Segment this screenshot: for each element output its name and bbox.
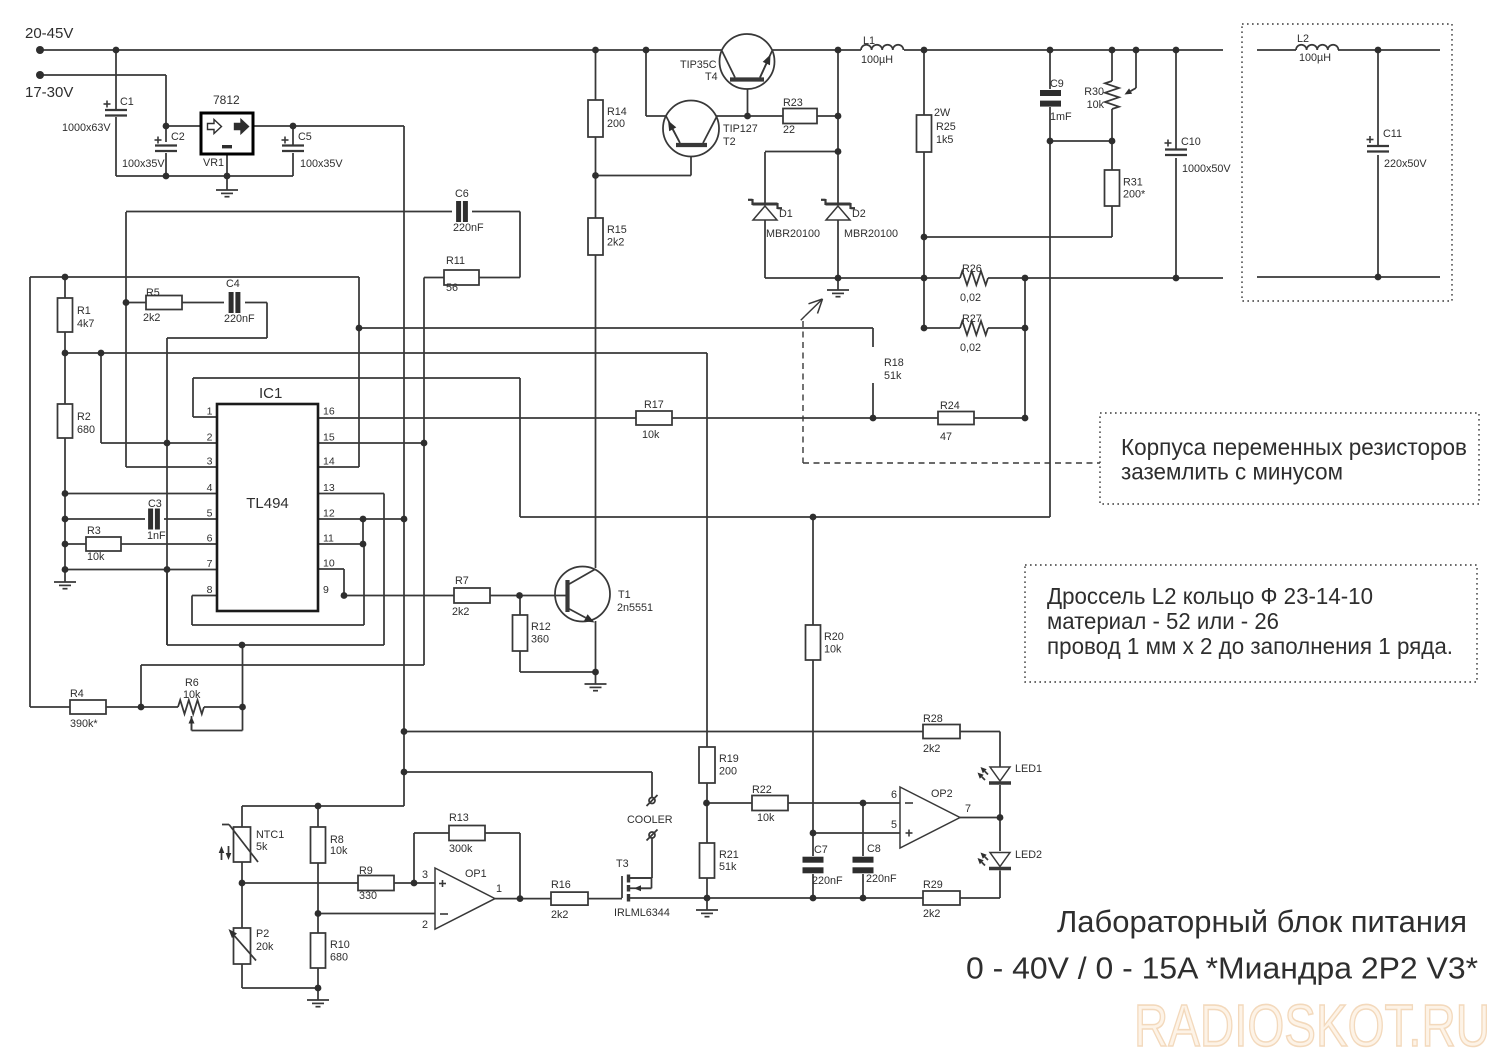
svg-text:200: 200 <box>719 766 737 778</box>
svg-text:1mF: 1mF <box>1050 111 1072 123</box>
svg-text:C6: C6 <box>455 188 469 200</box>
svg-text:14: 14 <box>323 456 335 468</box>
svg-text:LED2: LED2 <box>1015 849 1042 861</box>
svg-text:OP2: OP2 <box>931 788 953 800</box>
svg-text:9: 9 <box>323 584 329 596</box>
svg-text:6: 6 <box>891 789 897 801</box>
svg-text:NTC1: NTC1 <box>256 829 284 841</box>
svg-text:4k7: 4k7 <box>77 318 94 330</box>
svg-text:R30: R30 <box>1084 86 1104 98</box>
svg-text:220x50V: 220x50V <box>1384 158 1427 170</box>
svg-text:MBR20100: MBR20100 <box>766 228 820 240</box>
svg-text:R29: R29 <box>923 879 943 891</box>
svg-text:5: 5 <box>207 508 213 520</box>
svg-text:10k: 10k <box>642 429 660 441</box>
svg-text:0 - 40V / 0 - 15A *Миандра 2Р: 0 - 40V / 0 - 15A *Миандра 2Р2 V3* <box>966 951 1478 986</box>
svg-text:51k: 51k <box>884 370 902 382</box>
svg-text:R6: R6 <box>185 677 199 689</box>
svg-text:17-30V: 17-30V <box>25 84 73 101</box>
svg-text:2: 2 <box>207 432 213 444</box>
svg-text:51k: 51k <box>719 861 737 873</box>
svg-text:8: 8 <box>207 584 213 596</box>
svg-text:TIP35C: TIP35C <box>680 59 717 71</box>
svg-text:C10: C10 <box>1181 136 1201 148</box>
svg-text:100x35V: 100x35V <box>300 158 343 170</box>
svg-text:7812: 7812 <box>213 93 240 107</box>
svg-text:R9: R9 <box>359 865 373 877</box>
svg-text:R12: R12 <box>531 621 551 633</box>
svg-text:R21: R21 <box>719 849 739 861</box>
svg-text:10k: 10k <box>1087 99 1105 111</box>
svg-text:47: 47 <box>940 431 952 443</box>
svg-text:4: 4 <box>207 482 213 494</box>
svg-text:1k5: 1k5 <box>936 134 953 146</box>
svg-text:R24: R24 <box>940 400 960 412</box>
svg-text:1nF: 1nF <box>147 530 166 542</box>
svg-text:C1: C1 <box>120 96 134 108</box>
svg-text:13: 13 <box>323 482 335 494</box>
svg-text:6: 6 <box>207 533 213 545</box>
svg-text:R28: R28 <box>923 713 943 725</box>
svg-text:L1: L1 <box>863 35 875 47</box>
svg-text:2W: 2W <box>934 107 951 119</box>
svg-text:C5: C5 <box>298 131 312 143</box>
svg-text:VR1: VR1 <box>203 157 224 169</box>
svg-text:R3: R3 <box>87 525 101 537</box>
svg-text:16: 16 <box>323 406 335 418</box>
svg-text:Лабораторный блок питания: Лабораторный блок питания <box>1057 904 1467 939</box>
svg-text:20-45V: 20-45V <box>25 25 73 42</box>
svg-text:TL494: TL494 <box>246 495 289 512</box>
svg-text:330: 330 <box>359 890 377 902</box>
svg-text:L2: L2 <box>1297 33 1309 45</box>
svg-text:2k2: 2k2 <box>923 908 940 920</box>
svg-text:C11: C11 <box>1383 128 1402 140</box>
svg-text:P2: P2 <box>256 928 269 940</box>
svg-text:C3: C3 <box>148 498 162 510</box>
svg-text:0,02: 0,02 <box>960 292 981 304</box>
svg-text:R31: R31 <box>1123 177 1143 189</box>
svg-text:RADIOSKOT.RU: RADIOSKOT.RU <box>1134 993 1490 1059</box>
svg-text:2k2: 2k2 <box>143 312 160 324</box>
svg-text:5k: 5k <box>256 841 268 853</box>
svg-text:220nF: 220nF <box>453 222 484 234</box>
svg-text:R16: R16 <box>551 879 571 891</box>
svg-text:T2: T2 <box>723 136 736 148</box>
svg-text:R4: R4 <box>70 688 84 700</box>
svg-text:1000x63V: 1000x63V <box>62 122 111 134</box>
svg-text:MBR20100: MBR20100 <box>844 228 898 240</box>
svg-text:COOLER: COOLER <box>627 814 673 826</box>
svg-text:1: 1 <box>207 406 213 418</box>
svg-text:200*: 200* <box>1123 189 1146 201</box>
svg-text:R20: R20 <box>824 631 844 643</box>
svg-text:D1: D1 <box>779 208 793 220</box>
svg-text:TIP127: TIP127 <box>723 123 758 135</box>
svg-text:провод 1 мм x 2 до заполнения: провод 1 мм x 2 до заполнения 1 ряда. <box>1047 633 1453 659</box>
svg-text:R7: R7 <box>455 575 469 587</box>
svg-text:56: 56 <box>446 282 458 294</box>
svg-text:R10: R10 <box>330 939 350 951</box>
svg-text:3: 3 <box>422 869 428 881</box>
svg-text:C2: C2 <box>171 131 185 143</box>
svg-text:5: 5 <box>891 819 897 831</box>
svg-text:R11: R11 <box>446 255 465 267</box>
svg-text:11: 11 <box>323 533 334 545</box>
svg-text:R25: R25 <box>936 121 956 133</box>
svg-text:T1: T1 <box>618 589 631 601</box>
svg-text:7: 7 <box>207 558 213 570</box>
svg-text:680: 680 <box>330 952 348 964</box>
svg-text:100µH: 100µH <box>861 54 893 66</box>
svg-text:T3: T3 <box>616 858 629 870</box>
svg-text:LED1: LED1 <box>1015 763 1042 775</box>
svg-text:материал - 52 или - 26: материал - 52 или - 26 <box>1047 608 1279 634</box>
svg-text:R1: R1 <box>77 305 91 317</box>
svg-text:R22: R22 <box>752 784 772 796</box>
svg-text:2n5551: 2n5551 <box>617 602 653 614</box>
svg-text:2k2: 2k2 <box>607 237 624 249</box>
svg-text:C9: C9 <box>1050 78 1064 90</box>
svg-text:10k: 10k <box>330 845 348 857</box>
svg-text:R15: R15 <box>607 224 627 236</box>
svg-text:R27: R27 <box>962 313 982 325</box>
svg-text:22: 22 <box>783 124 795 136</box>
svg-text:C4: C4 <box>226 278 240 290</box>
svg-text:20k: 20k <box>256 941 274 953</box>
svg-text:10k: 10k <box>87 551 105 563</box>
svg-text:Дроссель L2 кольцо Ф 23-14-10: Дроссель L2 кольцо Ф 23-14-10 <box>1047 583 1373 609</box>
svg-text:Корпуса переменных резисторов: Корпуса переменных резисторов <box>1121 434 1467 460</box>
svg-text:2: 2 <box>422 919 428 931</box>
svg-text:2k2: 2k2 <box>452 606 469 618</box>
svg-text:100µH: 100µH <box>1299 52 1331 64</box>
svg-text:R19: R19 <box>719 753 739 765</box>
svg-text:200: 200 <box>607 118 625 130</box>
svg-text:OP1: OP1 <box>465 868 487 880</box>
svg-text:R14: R14 <box>607 106 627 118</box>
svg-text:1: 1 <box>496 883 502 895</box>
svg-text:R26: R26 <box>962 263 982 275</box>
svg-text:10k: 10k <box>824 644 842 656</box>
svg-text:220nF: 220nF <box>866 873 897 885</box>
svg-text:7: 7 <box>965 803 971 815</box>
svg-text:100x35V: 100x35V <box>122 158 165 170</box>
svg-text:R5: R5 <box>146 287 160 299</box>
svg-text:IC1: IC1 <box>259 385 282 402</box>
svg-text:R23: R23 <box>783 97 803 109</box>
svg-text:заземлить с минусом: заземлить с минусом <box>1121 459 1343 485</box>
svg-text:15: 15 <box>323 432 335 444</box>
svg-text:680: 680 <box>77 424 95 436</box>
svg-text:R18: R18 <box>884 357 904 369</box>
svg-text:2k2: 2k2 <box>551 909 568 921</box>
svg-text:IRLML6344: IRLML6344 <box>614 907 670 919</box>
svg-text:220nF: 220nF <box>812 875 843 887</box>
svg-text:R17: R17 <box>644 399 664 411</box>
svg-text:0,02: 0,02 <box>960 342 981 354</box>
svg-text:T4: T4 <box>705 71 718 83</box>
svg-text:D2: D2 <box>852 208 866 220</box>
svg-text:C8: C8 <box>867 843 881 855</box>
svg-text:360: 360 <box>531 634 549 646</box>
svg-text:1000x50V: 1000x50V <box>1182 163 1231 175</box>
svg-text:R13: R13 <box>449 812 469 824</box>
svg-text:10k: 10k <box>757 812 775 824</box>
svg-text:220nF: 220nF <box>224 313 255 325</box>
svg-text:10k: 10k <box>183 689 201 701</box>
svg-text:3: 3 <box>207 456 213 468</box>
svg-text:10: 10 <box>323 558 335 570</box>
svg-text:2k2: 2k2 <box>923 743 940 755</box>
svg-text:C7: C7 <box>814 844 828 856</box>
svg-text:300k: 300k <box>449 843 473 855</box>
svg-text:12: 12 <box>323 508 335 520</box>
svg-text:390k*: 390k* <box>70 718 98 730</box>
svg-text:R2: R2 <box>77 411 91 423</box>
